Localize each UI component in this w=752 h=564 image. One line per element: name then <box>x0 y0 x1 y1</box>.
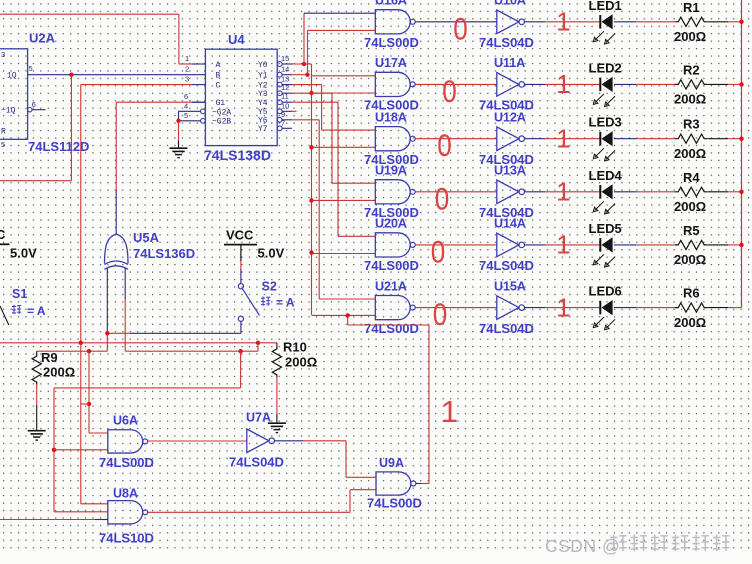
wire U8A input 1 <box>81 503 108 505</box>
wire up to U21A.in2 <box>347 315 349 325</box>
wire down to U9A.in1 <box>345 441 347 478</box>
U4 output Y2 bubble and stub pin 13 <box>277 82 282 87</box>
node branch down <box>238 349 242 353</box>
resistor R1 200ohm <box>675 17 707 26</box>
VCC power symbol <box>224 244 257 246</box>
cjk jian (key) <box>261 297 270 306</box>
wire row4 input 2 <box>312 199 376 201</box>
inverter U10A 74LS04D <box>497 10 519 34</box>
U4 74LS138D decoder body <box>205 49 277 145</box>
wire U9A out <box>416 483 421 485</box>
U4 output Y1 bubble and stub pin 14 <box>277 72 282 77</box>
svg-text:5.0V: 5.0V <box>258 246 285 261</box>
switch S2 <box>240 261 242 269</box>
node shared riser row4 <box>309 198 313 202</box>
LED4 <box>599 185 601 199</box>
wire riser Y2 <box>292 84 322 86</box>
svg-text:1Q: 1Q <box>7 72 17 81</box>
wire row6 LED to resistor <box>614 307 637 309</box>
node bus junction <box>739 243 743 247</box>
svg-text:74LS136D: 74LS136D <box>133 246 195 261</box>
U2A 74LS112D flip-flop body <box>0 49 28 140</box>
svg-text:74LS00D: 74LS00D <box>364 258 419 273</box>
svg-text:~G2A: ~G2A <box>212 108 231 117</box>
nand gate U9A 74LS00D <box>376 472 411 495</box>
wire U2A.1Q to U4.B <box>28 74 206 76</box>
U4 pin 1 input A stub <box>192 63 205 65</box>
svg-text:3: 3 <box>185 75 189 84</box>
wire row1 nand to inverter <box>415 21 497 23</box>
svg-text:Y0: Y0 <box>258 61 268 70</box>
wire R10 to ground <box>276 378 278 414</box>
svg-text:R9: R9 <box>41 350 58 365</box>
svg-text:5: 5 <box>29 64 33 73</box>
svg-text:1: 1 <box>185 54 189 63</box>
svg-text:CSDN @: CSDN @ <box>545 536 620 556</box>
node shared riser row3 <box>309 145 313 149</box>
wire row1 inverter to LED <box>525 21 546 23</box>
node shared riser row2 <box>309 91 313 95</box>
svg-text:0: 0 <box>433 296 448 332</box>
node G2 junction <box>176 119 180 123</box>
svg-text:U18A: U18A <box>375 111 407 125</box>
svg-text:U4: U4 <box>228 32 245 47</box>
svg-text:1: 1 <box>556 69 570 99</box>
svg-text:LED3: LED3 <box>589 115 622 130</box>
wire row4 nand to inverter <box>415 191 497 193</box>
inverter U12A 74LS04D <box>497 127 519 151</box>
wire H net S1 y343 <box>0 342 258 344</box>
svg-text:200Ω: 200Ω <box>674 252 706 267</box>
cjk watermark glyph <box>631 535 648 552</box>
wire row5 inverter to LED <box>525 244 546 246</box>
svg-text:15: 15 <box>281 54 289 63</box>
svg-text:1: 1 <box>556 177 570 207</box>
svg-text:U17A: U17A <box>375 56 407 70</box>
node Y1 riser junction <box>305 73 309 77</box>
svg-text:U9A: U9A <box>379 456 404 470</box>
resistor R9 200ohm <box>36 351 38 353</box>
wire shared riser to U21A.in2 <box>312 314 376 316</box>
svg-text:5.0V: 5.0V <box>10 246 37 261</box>
wire H343 to R10 <box>258 342 277 344</box>
svg-text:0: 0 <box>431 233 446 269</box>
svg-text:1: 1 <box>556 292 570 322</box>
ground below R10 <box>268 422 286 424</box>
wire row4 inverter to LED <box>525 191 546 193</box>
nand gate U21A 74LS00D <box>375 296 410 320</box>
svg-text:U11A: U11A <box>494 56 525 70</box>
svg-text:1: 1 <box>556 7 570 37</box>
wire VA continues down to U8A.in1 <box>80 343 82 504</box>
svg-text:0: 0 <box>453 10 468 46</box>
svg-text:U8A: U8A <box>113 487 138 501</box>
node jog top <box>256 341 260 345</box>
svg-text:~G2B: ~G2B <box>212 118 231 127</box>
svg-text:74LS112D: 74LS112D <box>28 139 89 154</box>
wire net A vertical to U4.A <box>178 14 180 64</box>
wire right vertical bus <box>741 0 743 308</box>
U4 output Y3 bubble and stub pin 12 <box>277 91 282 96</box>
svg-text:U10A: U10A <box>494 0 526 8</box>
wire riser Y1 <box>292 74 308 76</box>
svg-text:74LS00D: 74LS00D <box>364 321 419 336</box>
wire riser Y3 <box>292 92 332 94</box>
wire U8A input 3 <box>0 519 95 521</box>
svg-text:6: 6 <box>32 100 36 109</box>
svg-text:5: 5 <box>1 140 5 149</box>
wire row3 LED to resistor <box>614 138 637 140</box>
wire H388 <box>54 387 241 389</box>
wire net A top horizontal <box>0 13 179 15</box>
svg-text:S2: S2 <box>262 280 277 294</box>
wire 1Q branch vertical <box>70 75 72 181</box>
wire row4 input 1 <box>332 182 375 184</box>
wire S2 bottom <box>240 321 242 333</box>
nand gate U17A 74LS00D <box>375 72 410 96</box>
U2A pin 6 (~1Q) with bubble <box>28 108 32 112</box>
wire S1 net long vertical <box>80 85 82 343</box>
wire U5A out vertical upper <box>115 102 117 190</box>
nand gate U6A 74LS00D <box>108 430 143 453</box>
wire H net y351 right part <box>125 350 258 352</box>
wire row2 LED to resistor <box>614 83 637 85</box>
svg-text:U19A: U19A <box>375 164 407 178</box>
svg-text:200Ω: 200Ω <box>674 199 706 214</box>
nand gate U19A 74LS00D <box>375 180 410 204</box>
svg-text:2: 2 <box>185 65 189 74</box>
U4 pin 4 ~G2A stub with bubble <box>201 109 206 114</box>
svg-text:R: R <box>1 128 6 137</box>
wire G2 to ground <box>178 121 180 147</box>
wire jog 404 <box>81 403 89 405</box>
U4 output Y5 bubble and stub pin 10 <box>277 109 282 114</box>
resistor R6 200ohm <box>675 303 707 312</box>
svg-text:74LS04D: 74LS04D <box>229 455 284 470</box>
svg-text:200Ω: 200Ω <box>674 146 706 161</box>
wire up to U9A.in2 <box>349 490 351 513</box>
svg-text:200Ω: 200Ω <box>43 365 75 380</box>
svg-text:R1: R1 <box>683 0 700 15</box>
ground below R9 <box>28 430 46 432</box>
cjk watermark glyph <box>713 535 730 552</box>
svg-text:LED1: LED1 <box>589 0 622 13</box>
wire row2 nand to inverter <box>415 83 497 85</box>
wire U6A out to U7A <box>147 440 247 442</box>
svg-text:R10: R10 <box>283 340 307 355</box>
wire U8A out <box>147 511 350 513</box>
wire row1 input 1 <box>304 12 375 14</box>
svg-text:R5: R5 <box>683 223 700 238</box>
node U9A net joins <box>346 313 350 317</box>
inverter U15A 74LS04D <box>497 296 519 320</box>
wire branch x240.6 down <box>240 351 242 388</box>
LED1 <box>599 15 601 29</box>
svg-text:0: 0 <box>437 127 452 163</box>
svg-text:LED2: LED2 <box>589 60 622 75</box>
svg-text:U16A: U16A <box>375 0 407 8</box>
resistor R10 zigzag <box>272 346 281 377</box>
cjk watermark glyph <box>692 535 709 552</box>
nand gate U20A 74LS00D <box>375 233 410 257</box>
wire row3 input 2 <box>312 146 376 148</box>
wire V54 <box>53 388 55 512</box>
cjk watermark glyph <box>610 535 627 552</box>
wire riser Y5 stub <box>292 110 297 112</box>
svg-text:U15A: U15A <box>494 279 526 293</box>
wire H net y351 left part <box>37 350 108 352</box>
node V89 top <box>87 349 91 353</box>
wire Y0 connector <box>292 63 312 65</box>
wire V89 to U6A.in1 <box>88 351 90 433</box>
U4 pin 5 ~G2B stub with bubble <box>201 118 206 123</box>
wire row3 input 1 <box>322 129 376 131</box>
wire row4 LED to resistor <box>614 191 637 193</box>
wire U5A output to U4.G1 <box>116 101 192 103</box>
svg-text:200Ω: 200Ω <box>674 315 706 330</box>
svg-text:R3: R3 <box>683 117 700 132</box>
svg-text:G1: G1 <box>216 99 226 108</box>
LED2 <box>599 78 601 92</box>
svg-text:U5A: U5A <box>133 230 160 245</box>
wire row5 LED to resistor <box>614 244 637 246</box>
svg-text:R6: R6 <box>683 286 700 301</box>
nand gate U8A 74LS10D <box>108 501 143 524</box>
wire row2 inverter to LED <box>525 83 546 85</box>
cjk jian (key) S1 <box>12 305 21 314</box>
svg-text:74LS04D: 74LS04D <box>479 258 534 273</box>
svg-text:= A: = A <box>27 304 46 318</box>
wire U6A input 1 <box>89 432 108 434</box>
LED3 <box>599 132 601 146</box>
wire U9A out vertical <box>428 325 430 484</box>
svg-text:0: 0 <box>435 180 450 216</box>
wire U5A input 1 vertical <box>106 268 108 333</box>
wire row6 resistor to bus <box>708 307 729 309</box>
xor gate U5A 74LS136D <box>105 234 129 264</box>
svg-text:5: 5 <box>184 111 188 120</box>
svg-text:VCC: VCC <box>0 227 6 242</box>
svg-text:74LS04D: 74LS04D <box>479 35 534 50</box>
wire row5 nand to inverter <box>415 244 497 246</box>
svg-text:Y3: Y3 <box>258 90 268 99</box>
svg-text:3: 3 <box>1 50 5 59</box>
node S1 vertical joins H343 <box>79 341 83 345</box>
svg-text:U13A: U13A <box>494 164 526 178</box>
svg-text:Y1: Y1 <box>258 72 268 81</box>
wire row2 input 2 <box>312 92 376 94</box>
svg-text:= A: = A <box>276 296 295 310</box>
svg-text:R4: R4 <box>683 170 700 185</box>
wire into U4.A <box>179 63 192 65</box>
svg-text:200Ω: 200Ω <box>285 355 317 370</box>
node V54 U6A.in2 <box>52 448 56 452</box>
resistor R10 200ohm <box>276 343 278 347</box>
cjk watermark glyph <box>651 535 668 552</box>
resistor R4 200ohm <box>675 187 707 196</box>
resistor R5 200ohm <box>675 240 707 249</box>
wire row2 input 1 <box>311 75 375 77</box>
node bus junction <box>739 82 743 86</box>
svg-text:74LS138D: 74LS138D <box>204 147 271 163</box>
wire R9 to ground <box>36 385 38 405</box>
wire row5 resistor to bus <box>708 244 729 246</box>
svg-text:U2A: U2A <box>29 31 56 46</box>
svg-text:6: 6 <box>184 92 188 101</box>
wire row6 nand to inverter <box>415 307 497 309</box>
svg-text:B: B <box>216 72 221 81</box>
wire under U21A <box>348 324 429 326</box>
wire row1 LED to resistor <box>614 21 637 23</box>
wire U5A out vertical lower <box>115 190 117 234</box>
LED5 <box>599 238 601 252</box>
wire riser Y6 <box>292 119 319 121</box>
svg-text:11: 11 <box>281 92 289 101</box>
LED6 <box>599 301 601 315</box>
node U2A.1Q junction <box>69 73 73 77</box>
inverter U14A 74LS04D <box>497 233 519 257</box>
svg-text:VCC: VCC <box>226 228 254 243</box>
svg-text:LED5: LED5 <box>589 221 622 236</box>
U4 output Y0 bubble and stub pin 15 <box>277 62 282 67</box>
svg-text:S1: S1 <box>12 287 27 301</box>
svg-text:Y4: Y4 <box>258 99 268 108</box>
wire row3 resistor to bus <box>708 138 729 140</box>
wire 1Q branch to left edge <box>0 180 71 182</box>
svg-text:0: 0 <box>442 73 457 109</box>
wire shared riser <box>311 64 313 315</box>
svg-text:A: A <box>216 61 221 70</box>
node S2 to U5A.in1 <box>105 331 109 335</box>
nand gate U16A 74LS00D <box>375 10 410 34</box>
wire row5 input 1 <box>338 235 375 237</box>
svg-text:74LS00D: 74LS00D <box>364 35 419 50</box>
wire ~G2A to ~G2B <box>178 111 180 121</box>
svg-text:R2: R2 <box>683 62 700 77</box>
wire row6 inverter to LED <box>525 307 546 309</box>
resistor R3 200ohm <box>675 134 707 143</box>
svg-text:12: 12 <box>281 83 289 92</box>
svg-text:1: 1 <box>556 124 570 154</box>
node bus junction <box>739 190 743 194</box>
svg-text:C: C <box>216 81 221 90</box>
wire row4 resistor to bus <box>708 191 729 193</box>
svg-text:74LS04D: 74LS04D <box>479 321 534 336</box>
U4 output Y6 bubble and stub pin 9 <box>277 117 282 122</box>
wire jog x258 <box>257 343 259 351</box>
wire row5 input 2 <box>312 253 376 255</box>
svg-text:1: 1 <box>556 230 570 260</box>
wire U9A input 2 <box>350 489 376 491</box>
svg-text:U21A: U21A <box>375 279 407 293</box>
node Y0 riser junction <box>302 62 306 66</box>
svg-text:LED4: LED4 <box>589 168 623 183</box>
wire U6A input 2 <box>54 449 108 451</box>
svg-text:7: 7 <box>281 118 285 127</box>
svg-text:U12A: U12A <box>494 111 526 125</box>
nand gate U18A 74LS00D <box>375 127 410 151</box>
U4 output Y4 bubble and stub pin 11 <box>277 100 282 105</box>
svg-text:200Ω: 200Ω <box>674 29 706 44</box>
svg-text:14: 14 <box>281 65 289 74</box>
U4 pin 6 G1 stub <box>192 101 205 103</box>
wire U7A out <box>275 440 304 442</box>
svg-text:1: 1 <box>441 394 458 429</box>
resistor R2 200ohm <box>675 80 707 89</box>
wire U8A input 2 <box>54 511 108 513</box>
inverter U11A 74LS04D <box>497 73 519 97</box>
svg-text:200Ω: 200Ω <box>674 92 706 107</box>
svg-text:U14A: U14A <box>494 217 526 231</box>
svg-text:U7A: U7A <box>246 411 271 425</box>
wire U9A input 1 <box>346 476 376 478</box>
wire row3 inverter to LED <box>525 138 546 140</box>
svg-text:U20A: U20A <box>375 217 407 231</box>
svg-text:Y7: Y7 <box>258 125 268 134</box>
wire row2 resistor to bus <box>708 83 729 85</box>
node bus junction <box>739 137 743 141</box>
wire row1 resistor to bus <box>708 21 729 23</box>
wire riser Y4 <box>292 101 338 103</box>
wire U5A input 2 vertical <box>124 268 126 299</box>
wire U21A input 1 <box>319 298 375 300</box>
wire riser Y0 <box>303 13 305 64</box>
node bus junction <box>739 20 743 24</box>
inverter U7A 74LS04D <box>247 429 269 453</box>
ground below U4 <box>170 147 188 149</box>
svg-text:U6A: U6A <box>113 414 138 428</box>
wire row1 input 2 <box>308 29 376 31</box>
inverter U13A 74LS04D <box>497 180 519 204</box>
wire row3 nand to inverter <box>415 138 497 140</box>
svg-text:~1Q: ~1Q <box>1 107 16 116</box>
svg-text:LED6: LED6 <box>589 284 622 299</box>
cjk watermark glyph <box>672 535 689 552</box>
wire S1 net to U4.C <box>81 84 192 86</box>
node V89 mid <box>87 402 91 406</box>
node shared riser row5 <box>309 250 313 254</box>
svg-text:74LS00D: 74LS00D <box>99 455 154 470</box>
U4 output Y7 bubble and stub pin 7 <box>277 126 282 131</box>
svg-text:74LS00D: 74LS00D <box>367 496 422 511</box>
svg-text:74LS10D: 74LS10D <box>99 531 154 546</box>
svg-text:4: 4 <box>184 102 188 111</box>
resistor R9 zigzag <box>32 354 41 385</box>
